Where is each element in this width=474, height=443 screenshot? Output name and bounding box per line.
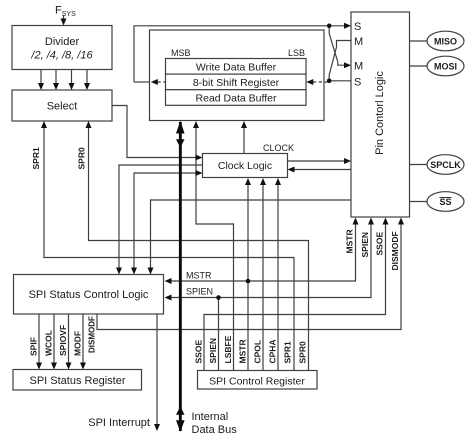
svg-text:CPHA: CPHA: [268, 339, 278, 363]
wire SPIF: [38, 314, 40, 368]
wire SPCLK: [410, 164, 428, 166]
svg-text:MISO: MISO: [434, 37, 457, 47]
wire CPOL: [262, 180, 264, 371]
bus top up arrow: [176, 121, 185, 134]
pin control logic box: [351, 12, 410, 217]
wire node B to S pin lower: [329, 80, 351, 82]
svg-text:CPOL: CPOL: [253, 340, 263, 364]
wire SPIEN horizontal: [167, 220, 372, 298]
arrow status top 3: [148, 268, 154, 275]
svg-text:SPIF: SPIF: [29, 337, 39, 356]
arrow SPI interrupt down: [154, 424, 160, 431]
svg-text:MSTR: MSTR: [186, 271, 212, 281]
arrow SPR1 up: [41, 121, 47, 128]
wire clock logic arrow and status control: [134, 173, 201, 273]
svg-text:S: S: [354, 21, 361, 33]
arrow CPHA clock up: [275, 178, 281, 185]
svg-text:MODF: MODF: [73, 331, 83, 356]
svg-text:SPI Status Register: SPI Status Register: [30, 375, 126, 387]
internal data bus thick line: [176, 121, 185, 432]
svg-text:Clock Logic: Clock Logic: [218, 160, 272, 172]
arrow SSOE into pin: [383, 218, 389, 225]
arrow SPIF down: [36, 363, 42, 370]
wire pin logic to status control: [151, 200, 352, 273]
wire SPR1 net: [44, 123, 294, 371]
arrow pin-clock left: [288, 167, 295, 173]
pad MISO: [427, 31, 464, 51]
svg-text:SPIEN: SPIEN: [360, 232, 370, 258]
bus bottom up arrow: [176, 407, 185, 415]
svg-text:Read Data Buffer: Read Data Buffer: [196, 93, 277, 105]
svg-text:Pin Contorl Logic: Pin Contorl Logic: [374, 71, 386, 155]
wire clock to pin: [288, 160, 350, 162]
svg-text:SSOE: SSOE: [194, 340, 204, 364]
pad MOSI: [427, 56, 464, 76]
wire MSB dashed: [158, 81, 166, 83]
SPI control register box: [198, 371, 318, 390]
wire SPI interrupt: [156, 314, 158, 429]
wire SPIEN vertical: [218, 298, 220, 371]
arrow select-clock right: [196, 155, 203, 161]
svg-text:MSB: MSB: [171, 48, 191, 58]
svg-text:LSBFE: LSBFE: [223, 335, 233, 363]
arrow LSBFE up: [193, 121, 199, 128]
svg-text:SS: SS: [439, 197, 451, 207]
arrow WCOL down: [51, 363, 57, 370]
SPI status register box: [13, 370, 142, 391]
svg-text:8-bit Shift Register: 8-bit Shift Register: [193, 77, 280, 89]
svg-text:LSB: LSB: [288, 48, 305, 58]
clock logic box: [203, 154, 288, 178]
arrow SPR0 up: [86, 121, 92, 128]
svg-text:SPI Status Control Logic: SPI Status Control Logic: [29, 289, 149, 301]
arrow DISMODF into pin: [398, 218, 404, 225]
wire pin to clock: [289, 169, 351, 171]
wire SPR0 net: [89, 123, 309, 371]
svg-text:Select: Select: [47, 101, 78, 113]
svg-text:Data Bus: Data Bus: [192, 424, 238, 436]
wire SSOE net: [204, 220, 386, 371]
svg-text:M: M: [354, 36, 363, 48]
svg-text:SPR0: SPR0: [298, 341, 308, 363]
arrow clock-pin right: [344, 158, 351, 164]
wire cross M1 to node B: [329, 41, 351, 81]
arrow div2: [53, 83, 59, 90]
buffer outer box: [150, 30, 325, 121]
wire MISO: [410, 40, 428, 42]
arrow SPIEN into status: [165, 295, 172, 301]
arrow into clock y173: [196, 170, 203, 176]
svg-text:SPR1: SPR1: [31, 147, 41, 169]
svg-text:SPIEN: SPIEN: [186, 287, 213, 297]
svg-text:MOSI: MOSI: [434, 62, 457, 72]
arrow into M pin lower: [344, 62, 351, 68]
wire divider to select 3: [71, 70, 73, 89]
wire cross S to M2: [329, 26, 349, 65]
ROTATED SMALL LABELS: [29, 147, 401, 363]
wire MSTR vertical: [247, 180, 249, 371]
svg-text:SPR1: SPR1: [283, 341, 293, 363]
wire select to clock logic: [112, 106, 201, 158]
svg-text:FSYS: FSYS: [55, 5, 76, 19]
svg-text:SPIEN: SPIEN: [208, 338, 218, 364]
arrow MSTR clock up: [245, 178, 251, 185]
svg-text:DISMODF: DISMODF: [390, 231, 400, 270]
select S1: [12, 90, 112, 121]
arrow status top 2: [131, 268, 137, 275]
wire MSB solid stub: [134, 81, 150, 83]
WIRES_THIN: [39, 15, 401, 429]
svg-text:Divider: Divider: [45, 36, 80, 48]
wire LSB dashed: [313, 81, 329, 83]
svg-text:CLOCK: CLOCK: [263, 143, 294, 153]
wire DISMODF net: [97, 220, 401, 330]
arrow MODF down: [80, 363, 86, 370]
wire CPHA: [277, 180, 279, 371]
svg-text:DISMODF: DISMODF: [88, 316, 97, 353]
wire MSTR horizontal: [167, 220, 356, 282]
wire divider to select 4: [86, 70, 88, 89]
arrow into S pin top: [344, 23, 351, 29]
svg-text:M: M: [354, 61, 363, 73]
svg-text:S: S: [354, 77, 361, 89]
SPI status control logic box: [14, 275, 164, 315]
node dot MSTR: [246, 279, 251, 284]
wire MODF: [82, 314, 84, 368]
arrow div3: [69, 83, 75, 90]
svg-text:MSTR: MSTR: [238, 339, 248, 363]
arrow FSYS down: [61, 19, 67, 26]
arrow clock-shift up: [241, 121, 247, 128]
svg-text:SPIOVF: SPIOVF: [58, 325, 68, 356]
svg-text:SPR0: SPR0: [77, 147, 87, 169]
arrow div1: [38, 83, 44, 90]
wire divider to select 1: [40, 70, 42, 89]
wire clock to shift register: [243, 123, 245, 154]
arrow MSB left: [151, 79, 158, 85]
node dot SPIEN: [216, 295, 221, 300]
wire MOSI: [410, 65, 428, 67]
arrow status top 1: [116, 268, 122, 275]
arrow SPIOVF down: [66, 363, 72, 370]
wire clock logic to status control: [119, 165, 203, 273]
svg-text:Write Data Buffer: Write Data Buffer: [196, 62, 277, 74]
pad SPCLK: [427, 155, 464, 175]
arrow CPOL clock up: [260, 178, 266, 185]
arrow MSTR into pin: [353, 218, 359, 225]
arrow SPIEN into pin: [368, 218, 374, 225]
bus bottom down arrow: [176, 420, 185, 432]
svg-text:Internal: Internal: [192, 411, 229, 423]
svg-text:SSOE: SSOE: [375, 232, 385, 256]
8-bit shift register: [166, 74, 307, 90]
svg-text:WCOL: WCOL: [44, 330, 54, 356]
node dot top S: [327, 24, 332, 29]
wire FSYS into divider: [63, 15, 65, 24]
read data buffer: [166, 90, 307, 106]
write data buffer: [166, 59, 307, 75]
wire SPIOVF: [68, 314, 70, 368]
wire LSBFE net: [196, 123, 234, 371]
arrow LSB left: [306, 79, 313, 85]
arrow MSTR into status: [165, 278, 172, 284]
wire serial top to S pin: [134, 26, 350, 82]
pad SS: [427, 192, 464, 212]
svg-text:/2, /4, /8, /16: /2, /4, /8, /16: [30, 50, 93, 62]
svg-text:SPCLK: SPCLK: [430, 160, 461, 170]
ARROWHEADS: [36, 19, 404, 432]
svg-text:SPI Interrupt: SPI Interrupt: [88, 417, 150, 429]
bus top down arrow: [176, 139, 185, 147]
arrow div4: [84, 83, 90, 90]
wire divider to select 2: [55, 70, 57, 89]
wire SS: [410, 201, 428, 203]
divider D1: [12, 26, 112, 70]
svg-text:MSTR: MSTR: [345, 229, 355, 253]
node dot lower S: [327, 79, 332, 84]
wire WCOL: [53, 314, 55, 368]
svg-text:SPI Control Register: SPI Control Register: [209, 376, 305, 388]
